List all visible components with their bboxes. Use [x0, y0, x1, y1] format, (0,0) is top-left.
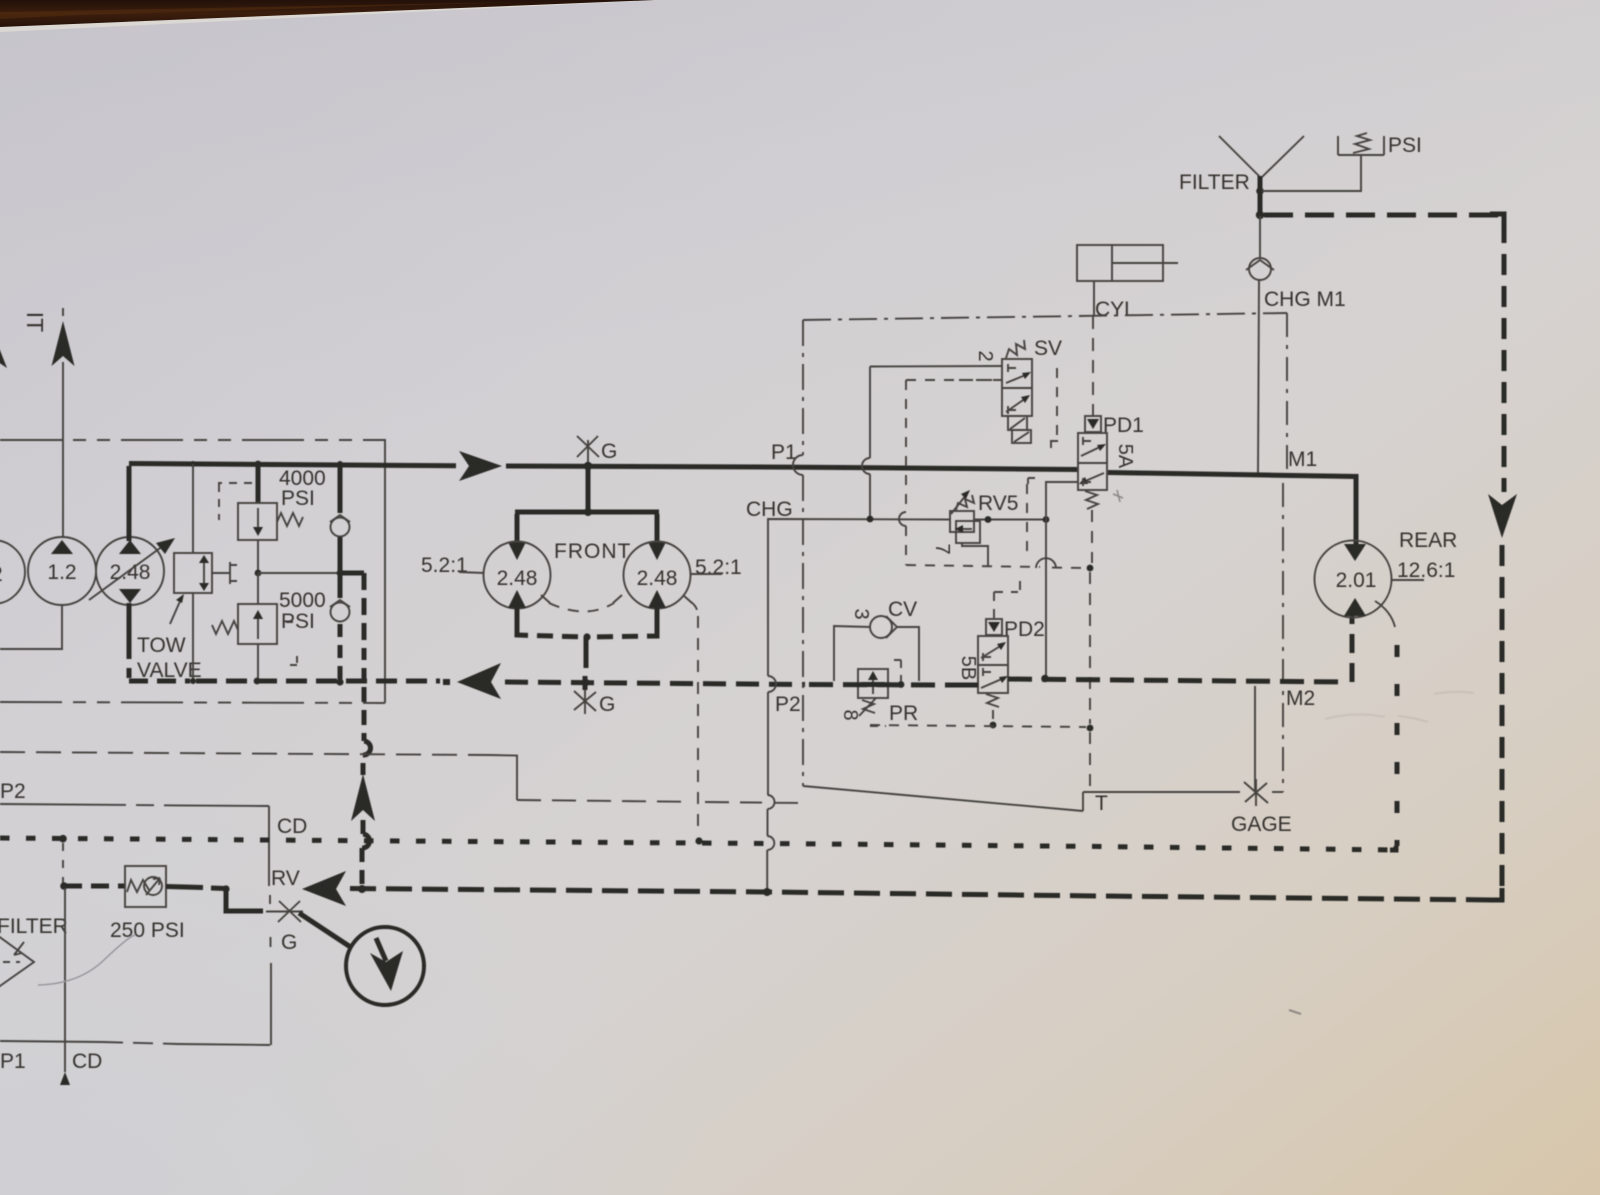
- CHG hop over return line: [768, 676, 776, 692]
- pump P1 1.2: [28, 537, 96, 605]
- SV lower arrow: [1006, 398, 1026, 412]
- wire: CHG line continues down: [767, 692, 769, 795]
- svg-text:3: 3: [850, 608, 872, 619]
- valve PR body: [858, 669, 888, 698]
- svg-text:CHG M1: CHG M1: [1264, 288, 1346, 311]
- svg-text:IT: IT: [22, 312, 48, 332]
- inner box bottom to T drop: [1052, 567, 1086, 569]
- SV solenoid slash: [1010, 418, 1029, 442]
- check valve CHG M1 seat: [1246, 260, 1274, 270]
- TOW valve two-way arrow: [203, 560, 205, 586]
- svg-text:FILTER: FILTER: [1179, 171, 1250, 194]
- cylinder rod: [1112, 262, 1178, 264]
- check valve CHG M1 circle: [1249, 258, 1271, 280]
- junction PR pilot on return: [898, 681, 905, 688]
- gauge needle arrow: [376, 938, 386, 961]
- CD dotted line: [0, 838, 1396, 850]
- junction CHG on RV line: [763, 888, 771, 896]
- valve block enclosure left edge: [802, 320, 804, 455]
- junction on check column: [337, 570, 344, 577]
- svg-text:PSI: PSI: [1388, 134, 1422, 157]
- 5000 PSI spring: [212, 621, 238, 634]
- junction 4000/5000 node: [255, 570, 262, 577]
- leader 5.2:1 right underline: [691, 573, 722, 575]
- svg-text:PD1: PD1: [1103, 414, 1144, 437]
- filter diamond (partial): [0, 930, 34, 993]
- pump group enclosure bottom (dash-dot): [0, 702, 385, 703]
- wire: return line thick dashed (left of arrow): [196, 679, 440, 684]
- 5000 PSI pilot dashes: [286, 622, 298, 665]
- pump group enclosure right edge: [384, 439, 386, 703]
- check valve CV1 seat: [330, 515, 350, 522]
- valve PD2 body upper: [978, 636, 1008, 665]
- pilot dashed from SV left port: [950, 379, 1002, 381]
- valve PD1 pilot box: [1085, 416, 1101, 432]
- GAGE test point X: [1244, 779, 1268, 806]
- svg-text:RV5: RV5: [978, 492, 1018, 515]
- 250 PSI arrow: [146, 878, 160, 895]
- svg-text:5000: 5000: [279, 589, 326, 612]
- junction RV5 node 2: [1043, 516, 1050, 523]
- pump group enclosure top (long dash): [0, 439, 385, 441]
- wire: rear case drain sparse dashed: [1395, 645, 1400, 846]
- junction 5000 drain on return: [254, 678, 261, 685]
- front motor R circle 2.48: [624, 542, 691, 609]
- wood table edge at top: [0, 0, 655, 27]
- PR adjust arrow: [859, 698, 876, 716]
- rear motor circle 2.01: [1315, 541, 1392, 618]
- PD1 upper arrow: [1081, 446, 1102, 456]
- svg-text:5B: 5B: [957, 656, 979, 680]
- wire: charge supply top dashed thick: [1264, 213, 1500, 218]
- svg-text:P1: P1: [0, 1050, 26, 1073]
- PD1 pilot triangle: [1087, 419, 1099, 429]
- svg-text:PSI: PSI: [281, 610, 315, 633]
- wire: pilot dash below PD2: [992, 710, 994, 722]
- SV solenoid box: [1008, 416, 1027, 430]
- riser hop over P1: [862, 458, 870, 474]
- charge branch hop over P2 dashed line: [363, 741, 371, 755]
- wire: return thick dashed right of PD2 (M2): [1008, 679, 1348, 682]
- wire: main P1 pressure line (thick): [129, 464, 456, 466]
- rear motor bottom arrow: [1344, 598, 1366, 616]
- flow arrow fragment at left edge: [0, 330, 7, 368]
- valve PD2 pilot box: [986, 619, 1002, 635]
- RV return arrow left: [302, 871, 346, 906]
- RV5 adjust arrow: [951, 495, 966, 514]
- RV5 internal arrow: [960, 528, 972, 530]
- inner pilot box left edge dashed: [905, 380, 907, 512]
- junction node on return: [1041, 675, 1049, 683]
- PD2 upper T port: [983, 653, 991, 661]
- wire: gage line up to M2: [1254, 686, 1256, 792]
- wire: below CV2 dashed thick to return: [338, 624, 343, 679]
- wire: thick pump case line down: [127, 603, 132, 640]
- CHG hop over CD line: [767, 836, 774, 850]
- wire: CV right branch: [897, 627, 919, 681]
- G test point X (gauge): [278, 901, 301, 922]
- flow arrow up (left): [52, 321, 75, 366]
- wire: front motors outlet manifold dashed thick: [517, 630, 657, 637]
- front motor L inlet arrow: [508, 542, 526, 560]
- svg-text:T: T: [1095, 792, 1108, 815]
- svg-text:8: 8: [839, 709, 861, 720]
- leader 12.6:1: [1391, 579, 1424, 581]
- wire: charge branch to RV line: [361, 820, 366, 834]
- FILTER symbol funnel: [1219, 136, 1304, 177]
- PSI switch spring: [1353, 133, 1370, 153]
- relief valve RV5 body: [950, 511, 974, 532]
- svg-text:M2: M2: [1286, 687, 1315, 710]
- wire: RV5 drain down: [962, 543, 988, 566]
- pump 2.48 (variable): [96, 537, 164, 605]
- svg-text:P1: P1: [771, 441, 797, 464]
- junction pilot on T drop: [1087, 565, 1094, 572]
- wire: thick elbow to charge branch: [340, 571, 364, 576]
- wire: filter column vertical: [64, 888, 66, 1072]
- wire: CHG line to RV junction: [766, 850, 768, 892]
- inner pilot box top dashed fragment: [906, 379, 1002, 381]
- svg-text:7: 7: [931, 543, 953, 554]
- front motor R bottom arrow: [648, 590, 666, 608]
- junction charge branch on RV line: [358, 885, 366, 893]
- svg-text:PR: PR: [889, 702, 918, 725]
- svg-text:PSI: PSI: [281, 487, 315, 510]
- PD1 upper T port: [1083, 437, 1091, 445]
- junction CV column on return: [336, 678, 343, 685]
- wire: thick check-valve column upper: [338, 464, 343, 513]
- wire: G drain thick below manifold: [584, 637, 589, 668]
- rear motor case drain curve: [1375, 601, 1395, 627]
- wire: PSI sense line: [1262, 155, 1361, 191]
- pilot corner fragment below P1: [1028, 478, 1035, 484]
- wire: T drop dashed: [1089, 572, 1091, 724]
- svg-text:CYL: CYL: [1095, 298, 1136, 321]
- wire: G stem on P1: [587, 440, 589, 464]
- PD1 spring below: [1085, 491, 1098, 509]
- TOW valve lever symbol: [212, 562, 237, 584]
- inner pilot box bottom dashed: [906, 565, 1040, 567]
- wire: pump case dashed to return corner: [129, 640, 190, 681]
- dot on return before arrow: [443, 679, 450, 685]
- svg-text:2: 2: [0, 563, 3, 586]
- junction P1/front riser: [584, 462, 593, 471]
- wire: 5000psi outlet down: [257, 644, 259, 681]
- SV solenoid box 2: [1012, 430, 1031, 443]
- junction at 4000psi riser: [255, 461, 262, 468]
- TOW valve body: [174, 553, 212, 593]
- wire: M2 dashed riser to rear motor: [1350, 616, 1355, 682]
- wire: filter stem thick: [1258, 176, 1263, 216]
- svg-text:REAR: REAR: [1399, 529, 1457, 552]
- wire: vertical from arrow to pump 1.2: [62, 362, 64, 538]
- PD1 lower arrow: [1083, 473, 1104, 482]
- wire: charge branch below return (dashed, hops, arrow): [362, 687, 367, 741]
- inner pilot box left edge lower: [905, 526, 907, 565]
- junction filter/dashed line: [1256, 211, 1264, 219]
- svg-text:5.2:1: 5.2:1: [421, 554, 468, 577]
- PD1 lower T port: [1083, 478, 1091, 486]
- corner charge supply: [1490, 214, 1504, 222]
- svg-text:G: G: [599, 693, 615, 716]
- wire: charge branch dashed down (upper): [362, 573, 367, 660]
- svg-text:SV: SV: [1034, 337, 1062, 360]
- SV lower T port: [1008, 406, 1016, 414]
- pump 2.48 top arrow: [119, 540, 141, 554]
- wire: return thick into PD2: [950, 683, 978, 688]
- svg-text:G: G: [601, 440, 617, 463]
- solenoid valve SV spring: [1006, 340, 1025, 358]
- cylinder piston: [1111, 245, 1113, 281]
- svg-text:5.2:1: 5.2:1: [695, 556, 742, 579]
- G drain test point X (bottom): [574, 690, 596, 714]
- wire: thick front manifold and drops: [517, 514, 657, 542]
- wire: pump 1.2 drain down-left: [0, 605, 62, 649]
- relief valve 5000 PSI body: [238, 604, 277, 644]
- SV upper arrow: [1006, 374, 1028, 383]
- lower-left block bottom dashes: [103, 1042, 178, 1044]
- relief valve 4000 PSI body: [238, 503, 277, 540]
- wire: cylinder port line: [1093, 281, 1095, 316]
- svg-text:CD: CD: [277, 815, 307, 838]
- junction CD at filter column: [59, 835, 67, 843]
- wire: PD1 drain dashed to T: [1091, 510, 1093, 563]
- wire: P2 gallery dashed to valve block: [517, 800, 801, 803]
- 250 PSI spring: [127, 880, 149, 892]
- leader 5.2:1 left: [459, 572, 484, 573]
- wire: TOW valve riser: [192, 464, 194, 553]
- faint pencil arc: [38, 935, 135, 985]
- wire: right edge charge dashed down: [1502, 222, 1507, 492]
- relief valve 250 PSI body: [125, 866, 166, 907]
- pump 2.48 bottom arrow: [119, 589, 141, 603]
- junction at check valve column: [337, 461, 343, 467]
- junction filter/psi line: [1256, 187, 1264, 195]
- smudge near 5A: [1113, 490, 1123, 502]
- wire: front case drain drop dashed: [697, 616, 699, 836]
- valve block enclosure right edge upper: [1286, 313, 1288, 470]
- valve block enclosure bottom: [803, 786, 1240, 811]
- svg-text:GAGE: GAGE: [1231, 813, 1292, 836]
- 5000 PSI internal arrow: [257, 617, 259, 639]
- wire: 4000psi outlet down: [257, 540, 259, 573]
- filter internal dashes: [0, 961, 20, 963]
- wire: front motor R outlet thick: [655, 608, 660, 632]
- svg-text:12.6:1: 12.6:1: [1397, 559, 1455, 582]
- valve block enclosure right edge lower: [1282, 483, 1284, 792]
- wire: T drop dashed lower: [1089, 732, 1091, 790]
- inner box hop over drain riser: [1036, 558, 1056, 568]
- wire: return line thick dashed to G-drain: [505, 682, 805, 685]
- svg-text:5A: 5A: [1114, 444, 1136, 469]
- PSI switch bracket and spring: [1338, 136, 1384, 155]
- relief valve RV5 spring: [956, 495, 974, 510]
- flow arrow down (right edge): [1488, 494, 1517, 538]
- svg-text:2.01: 2.01: [1336, 569, 1377, 592]
- pilot dashed right edge below P1: [1026, 484, 1028, 560]
- check valve CV seat: [886, 616, 897, 638]
- check valve CV circle: [870, 616, 892, 638]
- wire: M1 thick line to rear motor: [1108, 473, 1356, 545]
- 4000 PSI spring: [277, 513, 303, 526]
- corner rear case drain to CD: [1390, 846, 1396, 850]
- junction RV5 node 1: [985, 516, 992, 523]
- wire: 250psi line left segment: [64, 884, 125, 889]
- wire: front motor L outlet thick: [515, 608, 520, 632]
- wire: riser lower part: [869, 474, 871, 519]
- svg-text:2.48: 2.48: [637, 567, 678, 590]
- wire: CV left branch: [834, 626, 870, 681]
- 250 PSI ball circle: [144, 877, 162, 895]
- wire: 250psi outlet thick: [166, 887, 263, 912]
- svg-text:M1: M1: [1288, 448, 1317, 471]
- svg-text:1.2: 1.2: [47, 561, 76, 584]
- wire: thick pump outlet riser: [127, 466, 132, 541]
- wire: CHG M1 check stem: [1259, 216, 1261, 257]
- svg-text:FILTER: FILTER: [0, 915, 68, 938]
- wire: thick diagonal to gauge: [299, 913, 352, 948]
- junction T drop lower: [1087, 725, 1094, 732]
- junction front manifold: [584, 508, 592, 516]
- filter internal arrow: [14, 942, 24, 955]
- check valve CV1: [331, 518, 350, 537]
- RV5 inner box: [956, 521, 980, 543]
- wire: CHG M1 line down to M1: [1258, 280, 1259, 474]
- wire: between check valves (thick): [338, 537, 343, 598]
- PD2 pilot triangle: [988, 622, 1000, 632]
- wire: SV supply from riser: [870, 365, 1002, 368]
- lower-left block top edge: [0, 804, 269, 806]
- junction below PD2: [990, 722, 997, 729]
- wire: dotted stub CD to relief line: [62, 843, 64, 883]
- check valve CV2: [331, 603, 350, 622]
- lower-left block right edge: [269, 806, 271, 1045]
- solenoid valve SV body upper: [1002, 359, 1032, 388]
- rear motor inlet arrow: [1344, 544, 1366, 561]
- wire: thick riser into 4000psi relief: [256, 464, 261, 503]
- 4000 PSI internal arrow: [257, 508, 259, 530]
- wire: node down to return: [1045, 520, 1047, 677]
- valve PD1 body lower: [1078, 463, 1107, 490]
- pilot dashed bottom rail: [870, 725, 1086, 727]
- cylinder CYL body: [1077, 245, 1163, 281]
- front motor L circle 2.48: [484, 542, 551, 609]
- valve block enclosure top (dash-dot): [803, 313, 1287, 320]
- PD2 lower T port: [983, 668, 991, 676]
- wire: node to check-valve column: [258, 572, 340, 574]
- junction front drain: [583, 633, 590, 640]
- PR internal arrow: [872, 678, 874, 694]
- PR pilot dashes: [870, 660, 901, 726]
- front motor R inlet arrow: [648, 542, 666, 560]
- svg-text:TOW: TOW: [137, 634, 186, 657]
- svg-text:P2: P2: [775, 693, 801, 716]
- gauge circle: [346, 927, 424, 1005]
- wire: CHG line to CD: [767, 809, 769, 836]
- svg-text:2: 2: [974, 350, 996, 361]
- PD2 pilot dashed up: [994, 574, 1020, 618]
- front case drain arc ticks: [541, 595, 692, 603]
- front case drain curve to CD drop: [691, 602, 698, 616]
- variable displacement arrow through pump: [89, 543, 167, 600]
- solenoid valve SV body lower: [1002, 388, 1032, 416]
- TOW valve leader arrow: [170, 599, 181, 624]
- check valve CV2 seat: [330, 600, 350, 607]
- pump 1.2 inlet arrow: [51, 540, 73, 554]
- PR spring below: [862, 700, 875, 713]
- wire: return thick dashed through valves: [809, 682, 950, 688]
- CHG hop over dashed line: [768, 795, 775, 809]
- junction riser on CHG line: [867, 516, 874, 523]
- junction TOW drain on return: [190, 678, 196, 684]
- svg-text:PD2: PD2: [1004, 618, 1045, 641]
- svg-text:CV: CV: [888, 598, 917, 621]
- G test point X (top): [577, 436, 599, 457]
- PD2 lower arrow: [981, 678, 1004, 688]
- wire: G drain crossing return: [583, 676, 588, 690]
- inner box hop over CHG line: [899, 512, 906, 526]
- wire: thin dashed P2 gallery from left: [0, 752, 490, 755]
- wire: TOW valve down to return: [192, 593, 194, 681]
- svg-text:FRONT: FRONT: [554, 540, 631, 563]
- wire: node to PD1 lower port: [1046, 482, 1078, 520]
- svg-text:CHG: CHG: [746, 498, 793, 521]
- valve PD2 body lower: [978, 665, 1008, 693]
- junction at 250psi line: [60, 882, 68, 890]
- svg-text:CD: CD: [72, 1050, 102, 1073]
- paper edge highlight: [0, 0, 660, 32]
- junction case drain on CD line: [695, 837, 702, 844]
- svg-text:RV: RV: [271, 867, 300, 890]
- svg-text:P2: P2: [0, 780, 26, 803]
- wire: riser into 5000psi relief: [257, 573, 259, 604]
- hop over CD dotted line: [362, 834, 370, 848]
- front motor L bottom arrow: [508, 590, 526, 608]
- flow arrow up on charge branch: [351, 774, 375, 821]
- PD2 spring below: [986, 694, 999, 707]
- wire: P1 line continues (thick): [506, 466, 1078, 470]
- pump circle 2 (partial at edge): [0, 540, 25, 604]
- wire: thick front riser: [586, 466, 591, 511]
- paper smudges: [1325, 692, 1474, 722]
- svg-text:250 PSI: 250 PSI: [110, 919, 185, 942]
- wire: CHG line corner: [768, 519, 950, 676]
- wire: riser from SV down to CHG node: [869, 367, 871, 459]
- pilot dashes right of SV: [1050, 368, 1058, 448]
- svg-text:2.48: 2.48: [497, 567, 538, 590]
- GAGE X line segment: [1272, 791, 1283, 793]
- wire: dashed tick above flow arrow: [62, 308, 64, 320]
- junction G-drain on return: [582, 679, 589, 686]
- wire: right edge charge dashed down lower: [1500, 545, 1505, 888]
- wire: CYL pilot dashed to PD1: [1092, 316, 1094, 416]
- front case drain dashed arc between motors: [549, 603, 614, 612]
- return flow arrow left: [457, 663, 501, 699]
- 4000 PSI pilot dashes: [218, 483, 252, 520]
- P1 flow arrow right: [459, 451, 502, 481]
- wire: RV line thick dashed: [350, 889, 1497, 901]
- filter column end arrow: [60, 1072, 70, 1085]
- junction at TOW riser: [190, 461, 196, 467]
- PD2 upper arrow: [981, 645, 1002, 658]
- lower-left block bottom edge: [0, 1041, 270, 1045]
- corner to RV line: [1490, 888, 1502, 900]
- wire: RV5 outlet to node: [974, 519, 1046, 521]
- wire: P2 gallery solid corner: [490, 755, 517, 800]
- wire: return thick dash inside PR: [861, 682, 885, 687]
- svg-text:G: G: [281, 931, 297, 954]
- SV upper T port: [1008, 364, 1016, 372]
